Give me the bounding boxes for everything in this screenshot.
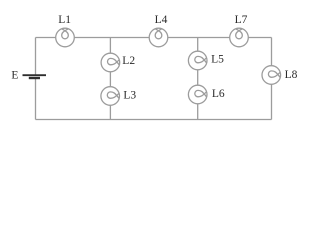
svg-text:L6: L6: [212, 88, 225, 100]
lamp L3: [101, 87, 120, 106]
svg-text:L1: L1: [58, 14, 71, 26]
wire: top rail: [36, 37, 272, 39]
lamp L5: [188, 51, 207, 70]
svg-text:L5: L5: [211, 53, 224, 65]
wire: bottom rail: [36, 119, 272, 121]
lamp L2: [101, 53, 120, 72]
lamp L8: [262, 66, 281, 85]
battery E plates: [23, 75, 47, 78]
lamp L6: [188, 85, 207, 104]
wire: branch L5-L6: [197, 38, 199, 120]
wire: branch L2-L3: [109, 38, 111, 120]
wire: right edge: [271, 38, 273, 120]
lamp L7: [230, 28, 249, 47]
lamp L1: [56, 28, 75, 47]
svg-text:L4: L4: [155, 14, 168, 26]
wire: left edge below battery: [35, 79, 37, 120]
wire: left edge above battery: [35, 38, 37, 75]
svg-text:L3: L3: [123, 89, 136, 101]
svg-text:E: E: [11, 70, 18, 82]
lamp L4: [149, 28, 168, 47]
svg-text:L2: L2: [122, 55, 135, 67]
svg-text:L8: L8: [285, 69, 298, 81]
svg-text:L7: L7: [235, 14, 248, 26]
